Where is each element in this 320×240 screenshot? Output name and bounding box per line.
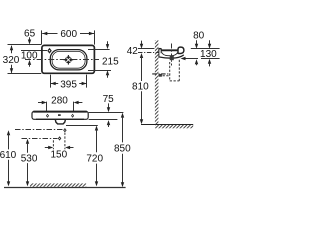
centerline (plan) (25, 59, 99, 61)
holes centerline dash-dot (side) (138, 52, 159, 54)
dim 610 line (7, 130, 10, 186)
dim 100 arrow (up to centerline) (28, 60, 31, 67)
drain symbol (plan) (64, 55, 74, 65)
svg-text:80: 80 (193, 31, 205, 42)
dim 215 arrows (106, 41, 109, 78)
supply centerline 2 (530 ref) (22, 138, 58, 140)
svg-text:395: 395 (60, 80, 77, 91)
trap dashed lines (side) (159, 60, 180, 81)
dim 280 arrows (38, 101, 82, 104)
dim 80 top arrow (195, 40, 198, 48)
slab top edge emphasis (33, 111, 87, 113)
diamond supply (front) (63, 128, 66, 132)
extension line bottom edge (left of basin) (8, 73, 42, 75)
svg-text:130: 130 (200, 49, 217, 60)
floor hatch (side) (155, 125, 193, 128)
slab bottom edge emphasis (36, 118, 84, 120)
floor line (side) (141, 124, 193, 126)
dim 850 line (121, 113, 124, 188)
outlet stub at wall (side) (159, 74, 162, 77)
svg-text:320: 320 (3, 55, 20, 66)
floor hatch (front) (30, 183, 86, 186)
wall hatch (side) (155, 40, 159, 124)
dim 320 line (10, 45, 13, 73)
basin back block (side) (158, 48, 161, 57)
svg-text:75: 75 (103, 94, 115, 105)
dim 130 top arrow (208, 40, 211, 48)
svg-text:215: 215 (102, 57, 119, 68)
svg-text:810: 810 (132, 82, 149, 93)
dim 810 line (140, 53, 143, 124)
dim 395 line (51, 82, 87, 85)
dim 600 extension line left (41, 30, 43, 44)
dim 80 bottom arrow (195, 59, 198, 65)
80/130 top ref line (191, 48, 220, 50)
front roll D (side) (178, 47, 184, 53)
75 top ref line (89, 112, 124, 114)
basin slab (front) (32, 111, 88, 119)
dim 600 extension line right (94, 30, 96, 44)
extension line tap hole level (21, 50, 47, 52)
42 ref line (basin top ext) (138, 48, 154, 50)
svg-text:610: 610 (0, 150, 17, 161)
extension line top edge level (left of basin) (8, 44, 42, 46)
diamond on line2 (front) (58, 136, 61, 140)
svg-text:530: 530 (21, 153, 38, 164)
floor line (front) (4, 187, 126, 189)
dim 395 extension lines (50, 75, 52, 88)
dim 150 arrows (45, 146, 74, 149)
dim 280 extension lines (46, 102, 48, 112)
tap hole diamond (plan) (47, 48, 52, 54)
80 bottom ref line with left arrow (181, 57, 199, 60)
svg-text:850: 850 (114, 144, 131, 155)
drain centerline (side) (171, 44, 173, 66)
dim 65 arrow (down) (28, 37, 31, 44)
drain block (side) (170, 56, 174, 61)
dim 215 extension line top (88, 49, 110, 51)
outlet centerline dash-dot (side) (152, 73, 170, 75)
dim 530 line (26, 139, 29, 187)
dim 75 arrows (107, 103, 110, 127)
trap dashed verticals (front) (53, 133, 65, 150)
svg-text:42: 42 (127, 46, 139, 57)
dim 215 extension line bottom (88, 70, 111, 72)
overflow center mark (front) (58, 114, 61, 116)
bowl outer (plan) (50, 50, 87, 70)
svg-text:720: 720 (86, 153, 103, 164)
bowl inner line (side) (162, 53, 178, 56)
fixing hole diamond right (front) (71, 114, 74, 118)
svg-text:600: 600 (60, 29, 77, 40)
rim top (side) (161, 49, 177, 51)
supply centerline 1 (610 ref) (15, 129, 65, 131)
dim 600 line (42, 32, 94, 35)
fixing hole diamond left (front) (46, 114, 49, 118)
dim 130 bottom arrow (208, 59, 211, 67)
dim 42 arrows (140, 41, 143, 49)
basin outer rect (plan) (42, 45, 95, 73)
dim 720 line (95, 126, 98, 187)
boss bottom ref line (66, 125, 98, 127)
drain boss (front) (55, 120, 65, 124)
svg-text:150: 150 (50, 150, 67, 161)
75 bottom ref line (89, 119, 118, 121)
svg-text:280: 280 (51, 96, 68, 107)
bowl inner (plan) (52, 51, 85, 68)
underside (side) (159, 55, 184, 58)
130 bottom ref line (201, 58, 220, 60)
